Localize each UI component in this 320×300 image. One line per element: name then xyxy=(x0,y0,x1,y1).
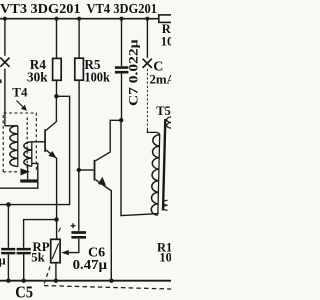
node rail-VT3bias xyxy=(3,17,7,21)
svg-text:VT3 3DG201: VT3 3DG201 xyxy=(0,2,81,17)
stray mark left edge xyxy=(0,79,2,83)
transistor VT4 xyxy=(95,120,121,161)
T4 shield box (dashed) xyxy=(3,113,36,172)
svg-text:100k: 100k xyxy=(84,69,110,84)
RP wiper arrow xyxy=(69,239,79,253)
node VT4 collector junction xyxy=(119,118,123,122)
T4 label pointer arrow xyxy=(17,101,25,109)
wire T4 secondary bottom out xyxy=(0,163,38,188)
svg-text:10: 10 xyxy=(159,250,171,264)
svg-text:µ: µ xyxy=(0,254,6,268)
resistor R4 30k xyxy=(56,19,58,58)
svg-text:C7 0.022µ: C7 0.022µ xyxy=(126,40,140,107)
svg-text:10: 10 xyxy=(161,35,171,49)
resistor R5 100k xyxy=(78,19,80,58)
resistor R (top right, cut off) xyxy=(159,15,173,23)
wire to C5 xyxy=(24,220,57,248)
capacitor C6 0.47u xyxy=(78,170,80,231)
T4 slug lead xyxy=(27,164,29,180)
svg-text:T4: T4 xyxy=(12,84,28,99)
wire VT4 collector to T5 xyxy=(121,120,159,215)
capacitor C5 xyxy=(17,249,31,253)
node gnd-C5 xyxy=(22,279,26,283)
wire collector jog to output xyxy=(0,96,70,204)
capacitor (bottom left, value cut) xyxy=(7,205,9,248)
svg-text:C5: C5 xyxy=(15,283,33,300)
T4 slug arrow xyxy=(21,168,31,175)
wire left branch with test point B xyxy=(4,19,6,56)
T5 core xyxy=(163,119,165,211)
node gnd-C5a xyxy=(6,279,10,283)
test point X (C) xyxy=(143,59,152,68)
svg-text:5k: 5k xyxy=(31,251,45,265)
svg-text:2mA: 2mA xyxy=(150,72,172,86)
node gnd-VT4e xyxy=(109,279,113,283)
node VT3 emitter branch xyxy=(54,217,58,221)
wire test point C branch xyxy=(146,20,148,58)
node gnd-RP xyxy=(54,279,58,283)
wire T4 primary top lead xyxy=(5,125,18,127)
test point X (left, cut) xyxy=(0,58,9,67)
node rail-C7 xyxy=(119,17,123,21)
T4 slug bar xyxy=(20,179,37,182)
wire VT4 base lead xyxy=(79,169,94,171)
svg-text:VT4 3DG201: VT4 3DG201 xyxy=(87,2,158,17)
wire top supply rail xyxy=(0,18,159,20)
transformer T4 primary winding xyxy=(17,126,19,167)
leader dash near C6 xyxy=(59,228,61,232)
node VT3 collector junction xyxy=(54,94,58,98)
node rail-T5 xyxy=(145,17,149,21)
transformer T5 primary winding xyxy=(158,135,160,214)
node rail-R5 xyxy=(77,17,81,21)
T4 core (dashed) xyxy=(26,118,28,171)
svg-text:0.47µ: 0.47µ xyxy=(73,257,108,272)
svg-text:30k: 30k xyxy=(27,69,48,84)
C6 polarity plus xyxy=(71,223,76,228)
node VT4 base junction xyxy=(77,168,81,172)
mechanical link dashed line xyxy=(44,286,171,289)
potentiometer RP 5k xyxy=(51,239,60,262)
capacitor C7 0.022u xyxy=(121,19,123,66)
transformer T4 secondary winding xyxy=(31,142,33,167)
node C5a top xyxy=(6,202,11,207)
svg-text:T5: T5 xyxy=(156,104,171,118)
transistor VT3 xyxy=(46,96,57,130)
T5 secondary winding (cut at edge) xyxy=(167,117,172,128)
wire bottom ground rail xyxy=(0,280,171,282)
node rail-R4 xyxy=(54,17,58,21)
